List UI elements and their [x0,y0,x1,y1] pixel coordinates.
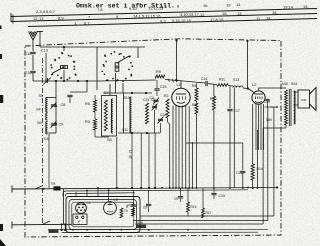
IF transformer S7 box [102,96,117,137]
capacitor C19b [264,96,268,98]
svg-text:S44: S44 [291,82,297,86]
trimmer C2 [158,118,163,120]
wire g2 [165,80,178,81]
svg-text:R15: R15 [191,205,197,209]
svg-text:5,6: 5,6 [161,4,167,9]
wire v 189 [188,106,190,188]
switch S2 [42,221,50,225]
svg-text:13: 13 [39,16,44,21]
wire rail y93 [103,92,152,94]
wire drops lower [61,224,63,230]
resistor R15 [187,188,189,202]
wire tube L1 pins [172,106,174,189]
svg-text:L1: L1 [177,82,182,87]
capacitor C9b [180,188,182,196]
wire v3 [140,133,142,188]
capacitor C17 [229,86,231,108]
capacitor C7 [133,190,135,204]
wire right conn y107 [265,106,278,108]
svg-text:S4b: S4b [301,98,307,102]
svg-text:14,: 14, [266,16,272,21]
wire v5 [154,133,156,188]
wire bus drop 2 [247,41,249,89]
svg-text:C8: C8 [143,206,147,210]
wire right v3 [273,107,275,216]
svg-text:R6: R6 [85,102,90,106]
wire bottom 2 [62,231,258,233]
svg-text:C19: C19 [264,100,270,104]
wire bus dots [154,187,156,189]
vacuum tube L2 [252,91,265,104]
svg-text:S45: S45 [282,82,288,86]
vacuum tube L1 [172,88,190,106]
wire v1 [116,137,118,188]
svg-text:7,8: 7,8 [97,7,103,12]
svg-text:S11: S11 [122,128,128,132]
coil S7 secondary [111,99,113,133]
wire node A horizontal [33,80,100,82]
wire bus drop 1 [176,41,178,81]
svg-text:3,10,15,17,12: 3,10,15,17,12 [180,12,205,17]
wire rail y133 [118,132,160,134]
svg-text:S6: S6 [37,121,42,125]
resistor R19 [120,208,123,218]
wire rail left [122,93,124,133]
wire switch-bus line A [11,9,317,17]
svg-text:C8: C8 [61,103,66,107]
wire tube L2 pins [255,104,257,150]
capacitor C10 [30,70,35,72]
svg-text:12,: 12, [33,16,39,21]
capacitor C15 [30,51,35,53]
wire g5 [228,85,233,88]
svg-text:S4: S4 [36,108,41,112]
svg-text:S4: S4 [44,137,49,141]
wire speaker conn [294,91,299,93]
wire switch-bus line B [11,14,317,22]
wire bus left hooks [10,13,12,22]
wire g4 [208,83,217,86]
svg-text:C4: C4 [150,96,155,100]
capacitor C12 [242,168,244,170]
svg-text:6,7: 6,7 [84,20,90,25]
switch wafer W1 [50,52,76,80]
terminal E [37,31,43,33]
svg-text:S5: S5 [39,94,44,98]
wire switch-bus line C [28,19,317,27]
svg-text:C15: C15 [25,52,32,56]
wire bottom 1 [48,229,268,231]
svg-text:S13: S13 [233,78,239,82]
resistor R17 [202,188,204,208]
svg-text:C19: C19 [219,194,225,198]
svg-text:R4: R4 [192,84,197,88]
wire main bus [12,188,64,190]
svg-text:C13: C13 [41,49,48,53]
svg-text:18,: 18, [222,11,228,16]
resistor R11 [217,84,228,87]
switch shaft linkage line [42,58,44,224]
svg-text:N: N [129,155,132,160]
svg-text:9,3: 9,3 [160,18,166,23]
wire v 234 [233,88,235,189]
wire g6 [243,87,248,90]
capacitor C8b [148,190,150,204]
vacuum tube L3 [104,202,117,215]
svg-text:13: 13 [237,11,242,16]
scan mark 1 [0,26,2,30]
wire g3 [178,81,205,84]
svg-text:9,10: 9,10 [129,6,138,11]
terminal B [11,222,13,229]
svg-text:2,3,4,5,6,7: 2,3,4,5,6,7 [36,9,56,14]
svg-text:L3: L3 [114,198,118,202]
switch S1 [35,186,43,190]
resistor R2 [166,99,169,118]
wire box verticals [75,192,77,197]
scan mark 4 [0,224,3,231]
scan mark corner [0,239,6,246]
wire transformer bottom [285,125,287,128]
svg-text:C9: C9 [59,123,64,127]
svg-text:S10: S10 [124,96,130,100]
power unit inner box [69,200,137,230]
svg-text:15,: 15, [303,4,309,9]
wire plate [258,88,260,90]
wire pin jog [186,142,243,144]
svg-text:14: 14 [236,2,241,7]
svg-text:R9: R9 [156,70,161,74]
svg-text:C24: C24 [143,98,149,102]
coil S7 primary [104,100,107,131]
wire r-chain [94,95,96,100]
wire earth lead [12,223,72,226]
svg-text:C2a: C2a [160,113,166,117]
svg-text:16: 16 [203,3,208,8]
wire v2 C14 [131,133,133,188]
antenna symbol [29,32,38,41]
trimmer C9 [51,123,56,125]
capacitor C16 [205,81,207,86]
wire R2 down [167,118,169,122]
power unit inner box 2 [72,202,134,227]
transformer core [288,89,290,126]
wire coil rail [48,96,57,98]
speaker [298,90,310,108]
terminal A [11,186,13,193]
svg-text:R2: R2 [164,94,169,98]
svg-text:C25: C25 [160,85,166,89]
wire right v2 [267,107,269,221]
svg-text:R17: R17 [206,211,212,215]
wire v4 [148,133,150,188]
scan mark 3 [0,95,3,103]
svg-text:1,: 1, [74,21,77,26]
svg-text:L4: L4 [87,201,91,205]
svg-text:11,: 11, [256,16,261,21]
svg-text:19: 19 [226,2,231,7]
svg-text:17,8,15: 17,8,15 [210,17,224,22]
wire wafer2 box [96,47,98,90]
svg-text:R18: R18 [128,204,134,208]
wire top horizontal y47 [40,46,97,48]
svg-text:C16: C16 [201,77,207,81]
wire coil to bus [48,134,50,157]
switch wafer W2 [101,51,133,82]
wire ant [32,55,34,70]
capacitor C11 [86,81,88,92]
svg-text:C12: C12 [236,171,242,175]
wire drop to box [63,189,65,225]
wire g1 [100,80,156,81]
trimmer C8 [51,104,56,106]
wire L3 top [108,191,110,202]
wire bottom dots [72,229,74,231]
mains connector [73,214,87,225]
svg-text:18V: 18V [266,118,273,122]
wire ant2 [32,73,34,81]
svg-text:C9: C9 [174,197,178,201]
wire wafer2 pins [109,84,111,95]
wire bus2 [66,190,249,191]
svg-text:R1L: R1L [219,78,225,82]
svg-text:8,9: 8,9 [58,15,64,20]
scan mark 2 [0,54,2,59]
wire trimmer drops [154,110,156,133]
trimmer C4 [153,99,158,101]
svg-text:S18: S18 [137,221,143,225]
svg-text:L2: L2 [252,82,257,87]
svg-text:T9: T9 [124,209,128,213]
svg-text:18,: 18, [272,10,278,15]
capacitor C19c [213,188,215,193]
svg-text:R3: R3 [85,120,90,124]
svg-text:C: C [129,149,132,154]
fuse block [54,186,61,190]
wire v 192 [192,143,194,188]
wire L2 pin long [256,130,258,188]
resistor R14 [251,164,254,180]
power unit box [66,197,140,233]
svg-text:19,14: 19,14 [283,5,294,10]
wire grid cap L2 [248,89,253,92]
svg-text:C10: C10 [25,71,32,75]
resistor R18 [132,208,135,216]
svg-text:14,1,5,11,15,16: 14,1,5,11,15,16 [133,13,161,18]
chassis border box [25,39,281,237]
svg-text:9,: 9, [116,14,119,19]
svg-text:S8: S8 [107,138,112,142]
capacitor C25 [154,88,159,90]
wire right v1 [262,131,264,224]
label S18 [137,225,147,228]
wire bus3 [68,192,136,195]
vacuum tube L4 [76,203,87,214]
svg-text:Sa: Sa [51,182,55,186]
svg-text:5,16,10,18: 5,16,10,18 [172,18,192,23]
